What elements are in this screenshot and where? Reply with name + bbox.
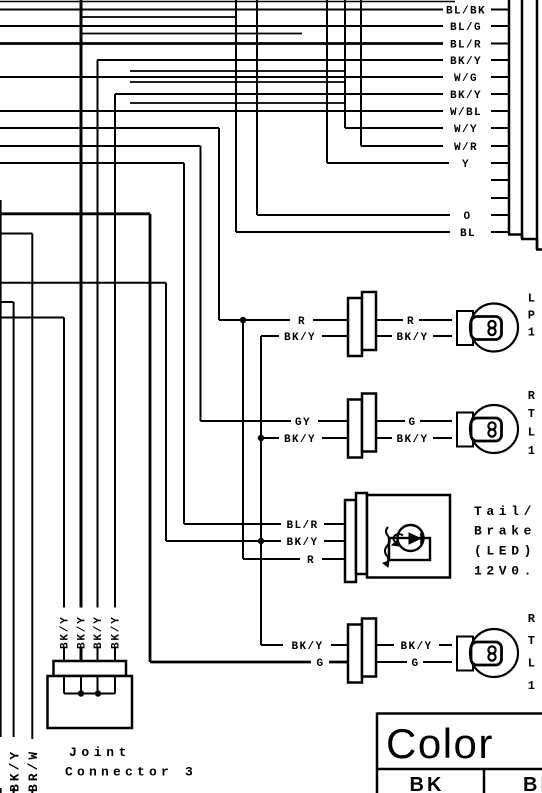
svg-text:G: G <box>316 658 324 670</box>
connector lamp2 half A <box>348 400 362 458</box>
svg-text:BK/Y: BK/Y <box>396 332 428 344</box>
wire vertical to BL/R LED <box>183 163 185 524</box>
wire joint pin1 lower <box>63 648 65 676</box>
bulb lamp4 <box>457 629 518 677</box>
svg-text:G: G <box>411 658 419 670</box>
wire Y (tick to harness) <box>491 162 509 164</box>
svg-text:W/BL: W/BL <box>450 107 482 119</box>
svg-text:BK/Y: BK/Y <box>450 56 482 68</box>
wire vertical to BL row <box>235 0 237 232</box>
wire O (left segment) <box>257 214 450 216</box>
svg-text:BK/Y: BK/Y <box>0 749 2 792</box>
wire joint pin2 lower <box>80 648 83 676</box>
joint connector pin 3 <box>97 676 99 694</box>
wire R lamp1 row <box>219 319 452 321</box>
svg-text:Connector 3: Connector 3 <box>65 765 197 780</box>
harness bundle exit staircase <box>508 234 542 250</box>
wire BK/Y LED row <box>166 540 345 542</box>
wire BL (left segment) <box>0 233 32 235</box>
svg-text:BL: BL <box>460 228 476 240</box>
svg-text:L: L <box>528 292 537 306</box>
wire Y (left segment) <box>0 162 184 164</box>
svg-text:BK: BK <box>410 774 445 793</box>
svg-text:BK/Y: BK/Y <box>396 434 428 446</box>
svg-text:BK/Y: BK/Y <box>93 615 105 649</box>
svg-text:R: R <box>528 389 537 403</box>
svg-text:BL/R: BL/R <box>286 520 318 532</box>
LED unit box <box>367 495 450 578</box>
svg-text:BL/G: BL/G <box>450 22 482 34</box>
wire BL/BK (tick to harness) <box>491 9 509 11</box>
svg-text:BL/BK: BL/BK <box>446 6 486 18</box>
wire BL/BK (left segment) <box>0 9 443 11</box>
svg-text:W/R: W/R <box>454 142 478 154</box>
svg-text:W/Y: W/Y <box>454 124 478 136</box>
svg-text:(LED): (LED) <box>474 544 536 559</box>
wire top cut-off row <box>0 1 455 3</box>
junction dot bus pin2 <box>78 690 84 696</box>
wire row to joint connector pin 1 <box>0 317 64 319</box>
svg-text:1: 1 <box>528 679 537 693</box>
wire vertical joint pin4 <box>114 94 116 608</box>
wire W/G (tick to harness) <box>491 76 509 78</box>
svg-text:R: R <box>528 612 537 626</box>
wire R LED row <box>243 558 345 560</box>
wire vertical left edge <box>0 200 2 737</box>
joint connector pin 1 <box>63 676 65 694</box>
connector LED half B <box>356 493 367 574</box>
color table frame <box>377 713 542 793</box>
wire BR/W resume <box>31 790 33 793</box>
wire BL (tick to harness) <box>491 231 509 233</box>
tick unlabeled 1 <box>491 179 509 181</box>
svg-text:BL/R: BL/R <box>450 40 482 52</box>
wire vertical to W/R row <box>360 0 362 146</box>
wire vertical to Y row <box>326 0 328 163</box>
wire W/G (left segment) <box>0 76 443 78</box>
wire vertical BK/Y left <box>13 302 15 737</box>
junction dot BK/Y lamp2 <box>258 435 264 441</box>
wire vertical to W/Y row <box>344 0 346 128</box>
connector lamp1 half A <box>348 298 362 356</box>
svg-text:BK/Y: BK/Y <box>8 749 23 792</box>
wire row to BK/Y bottom label <box>0 301 14 303</box>
wire vertical to G lamp4 <box>149 214 152 662</box>
wire stub row E <box>130 102 345 104</box>
svg-text:G: G <box>408 417 416 429</box>
wire W/R (left segment) <box>361 145 443 147</box>
svg-text:BR/W: BR/W <box>26 749 41 792</box>
joint connector 3 cap <box>54 661 127 676</box>
wire BK/Y lamp4 row <box>261 644 452 646</box>
wire stub row A <box>81 16 235 18</box>
wire BL/R (left segment) <box>0 42 443 45</box>
wire vertical R branch to LED <box>242 320 244 559</box>
wire vertical to BK/Y LED <box>165 283 167 541</box>
svg-text:BK/Y: BK/Y <box>60 615 72 649</box>
wire vertical BR/W <box>31 234 33 740</box>
wire W/Y (left segment) <box>345 127 443 129</box>
svg-text:BK/Y: BK/Y <box>77 615 89 649</box>
wire W/Y (left segment) <box>0 127 219 129</box>
svg-text:12V0.: 12V0. <box>474 564 536 579</box>
wire BK/Y 1 (left segment) <box>97 59 443 61</box>
svg-text:GY: GY <box>295 417 311 429</box>
junction dot bus pin3 <box>95 690 101 696</box>
harness bundle line 1 <box>508 0 511 235</box>
wire O (tick to harness) <box>491 214 509 216</box>
wire BK/Y 2 (left segment) <box>115 93 443 95</box>
wire left edge resume <box>0 788 2 793</box>
wire W/BL (tick to harness) <box>491 110 509 112</box>
wire GY lamp2 row <box>201 420 453 422</box>
wire BK/Y 1 (tick to harness) <box>491 59 509 61</box>
svg-text:BK/Y: BK/Y <box>284 434 316 446</box>
svg-text:Y: Y <box>462 159 470 171</box>
LED symbol <box>383 525 430 567</box>
wire O (left segment) <box>0 212 150 215</box>
bulb lamp2 <box>457 405 518 453</box>
svg-text:BK/Y: BK/Y <box>450 90 482 102</box>
wire vertical BK/Y branch <box>260 336 262 645</box>
connector lamp2 half B <box>362 394 376 452</box>
connector lamp4 half B <box>362 619 376 677</box>
svg-text:1: 1 <box>528 444 537 458</box>
wire vertical to R lamp1 <box>218 128 220 320</box>
wire BK/Y lamp2 row <box>261 437 452 439</box>
wire W/R (tick to harness) <box>491 145 509 147</box>
joint connector 3 body <box>48 676 133 728</box>
svg-text:1: 1 <box>528 326 537 340</box>
svg-text:O: O <box>463 211 471 223</box>
svg-text:T: T <box>528 407 537 421</box>
joint connector pin 4 <box>114 676 116 694</box>
svg-text:BK/Y: BK/Y <box>286 537 318 549</box>
wire vertical joint pin2 (thick) <box>80 0 83 608</box>
svg-text:Joint: Joint <box>69 745 131 760</box>
wire row to LED BK/Y <box>0 282 166 284</box>
connector lamp4 half A <box>348 625 362 683</box>
harness bundle line 3 <box>536 0 539 250</box>
svg-text:R: R <box>307 555 315 567</box>
joint connector bus <box>64 693 115 695</box>
svg-text:R: R <box>407 316 415 328</box>
wire stub row C <box>130 70 345 72</box>
bulb lamp1 <box>457 304 518 352</box>
junction dot BK/Y LED <box>258 538 264 544</box>
svg-text:P: P <box>528 309 537 323</box>
svg-text:BK/Y: BK/Y <box>291 641 323 653</box>
wire BK/Y lamp1 row <box>261 335 452 337</box>
wire vertical joint pin1 <box>63 318 65 608</box>
wire BK/Y left resume <box>13 788 15 793</box>
connector LED half A <box>345 500 356 582</box>
svg-text:BK/Y: BK/Y <box>284 332 316 344</box>
junction dot R lamp1 <box>240 317 246 323</box>
wire joint pin4 lower <box>114 648 116 676</box>
wire joint pin3 lower <box>97 648 99 676</box>
wire vertical joint pin3 <box>97 60 99 608</box>
svg-text:Tail/: Tail/ <box>474 504 536 519</box>
svg-text:L: L <box>528 657 537 671</box>
harness bundle line 2 <box>521 0 524 239</box>
wire Y (left segment) <box>327 162 449 164</box>
svg-text:BL: BL <box>523 774 542 793</box>
svg-text:BK/Y: BK/Y <box>400 641 432 653</box>
wire BL/G (tick to harness) <box>491 25 509 27</box>
wire G lamp4 row <box>150 661 348 664</box>
svg-text:L: L <box>528 426 537 440</box>
svg-text:R: R <box>298 316 306 328</box>
wire stub row B <box>81 33 302 35</box>
wire G lamp4 row right <box>376 661 452 663</box>
svg-text:Brake: Brake <box>474 524 536 539</box>
svg-text:T: T <box>528 634 537 648</box>
wire W/R (left segment) <box>0 145 201 147</box>
svg-text:Color: Color <box>386 720 494 767</box>
joint connector pin 2 <box>80 676 82 694</box>
wire BL (left segment) <box>236 231 450 233</box>
wire BL/R (tick to harness) <box>491 43 509 45</box>
tick unlabeled 2 <box>491 197 509 199</box>
wire W/Y (tick to harness) <box>491 127 509 129</box>
wire vertical to GY lamp2 <box>200 146 202 421</box>
wire BK/Y 2 (tick to harness) <box>491 93 509 95</box>
wire W/BL (left segment) <box>0 110 443 112</box>
wire vertical to O row <box>256 0 258 215</box>
svg-text:W/G: W/G <box>454 73 478 85</box>
wire BL/R LED row <box>184 523 345 525</box>
svg-text:BK/Y: BK/Y <box>111 615 123 649</box>
wire BL/G (left segment) <box>0 25 443 27</box>
connector lamp1 half B <box>362 292 376 350</box>
wire stub row D <box>130 81 345 83</box>
